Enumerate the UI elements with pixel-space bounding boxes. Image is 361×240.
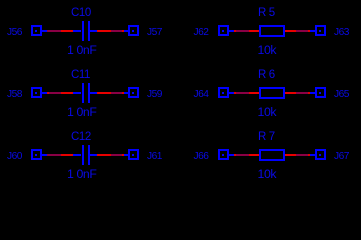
label J63 <box>334 27 349 38</box>
connector J60 <box>31 149 42 160</box>
connector J58 <box>31 87 42 98</box>
wire <box>285 154 296 156</box>
wire <box>111 30 122 32</box>
wire <box>111 92 122 94</box>
junction dot <box>234 92 236 94</box>
junction dot <box>122 92 124 94</box>
value label 10nF <box>67 169 96 180</box>
connector J56 <box>31 25 42 36</box>
pin wire of J67 <box>310 154 316 156</box>
wire <box>111 154 122 156</box>
resistor R7 <box>259 149 285 161</box>
resistor R5 <box>259 25 285 37</box>
refdes label C11 <box>71 70 90 81</box>
refdes label R6 <box>258 70 275 81</box>
pin wire of J63 <box>310 30 316 32</box>
junction dot <box>308 30 310 32</box>
connector J59 <box>128 87 139 98</box>
wire <box>249 30 260 32</box>
connector J63 <box>315 25 326 36</box>
label J59 <box>147 89 162 100</box>
junction dot <box>308 154 310 156</box>
value label 10nF <box>67 45 96 56</box>
pin wire of J58 <box>42 92 47 94</box>
value label 10k <box>258 169 277 180</box>
label J58 <box>7 89 22 100</box>
wire <box>296 30 308 32</box>
label J66 <box>194 151 209 162</box>
wire <box>47 154 61 156</box>
refdes label C12 <box>71 132 91 143</box>
pin wire of J66 <box>229 154 234 156</box>
refdes label C10 <box>71 8 91 19</box>
junction dot <box>308 92 310 94</box>
wire <box>97 30 111 32</box>
label J65 <box>334 89 349 100</box>
wire <box>49 92 61 94</box>
label J67 <box>334 151 349 162</box>
connector J66 <box>218 149 229 160</box>
wire <box>236 92 250 94</box>
junction dot <box>47 92 49 94</box>
label J64 <box>194 89 209 100</box>
wire <box>285 92 296 94</box>
capacitor C10 <box>73 30 81 32</box>
connector J61 <box>128 149 139 160</box>
pin wire of J64 <box>229 92 234 94</box>
pin wire of J62 <box>229 30 234 32</box>
refdes label R5 <box>258 8 275 19</box>
pin wire of J57 <box>124 30 129 32</box>
connector J67 <box>315 149 326 160</box>
label J57 <box>147 27 162 38</box>
connector J57 <box>128 25 139 36</box>
value label 10k <box>258 107 277 118</box>
wire <box>296 92 308 94</box>
wire <box>47 30 61 32</box>
capacitor C12 <box>73 154 81 156</box>
junction dot <box>234 154 236 156</box>
wire <box>249 154 260 156</box>
label J60 <box>7 151 22 162</box>
capacitor C11 <box>73 92 81 94</box>
pin wire of J60 <box>42 154 47 156</box>
wire <box>61 92 74 94</box>
wire <box>249 92 260 94</box>
connector J64 <box>218 87 229 98</box>
wire <box>236 30 250 32</box>
wire <box>61 30 74 32</box>
label J61 <box>147 151 162 162</box>
value label 10nF <box>67 107 96 118</box>
label J62 <box>194 27 209 38</box>
resistor R6 <box>259 87 285 99</box>
value label 10k <box>258 45 277 56</box>
pin wire of J56 <box>42 30 47 32</box>
wire <box>97 154 111 156</box>
wire <box>285 30 296 32</box>
refdes label R7 <box>258 132 275 143</box>
wire <box>236 154 250 156</box>
connector J65 <box>315 87 326 98</box>
wire <box>296 154 308 156</box>
wire <box>97 92 111 94</box>
junction dot <box>122 154 124 156</box>
pin wire of J61 <box>124 154 129 156</box>
wire <box>61 154 74 156</box>
junction dot <box>122 30 124 32</box>
connector J62 <box>218 25 229 36</box>
junction dot <box>234 30 236 32</box>
pin wire of J59 <box>124 92 129 94</box>
label J56 <box>7 27 22 38</box>
pin wire of J65 <box>310 92 316 94</box>
